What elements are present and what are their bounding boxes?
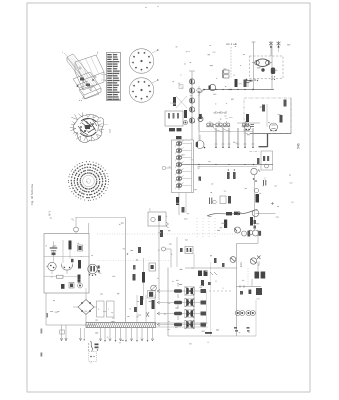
wire xyxy=(266,104,268,127)
wire xyxy=(167,268,169,337)
resistor R22 xyxy=(61,284,65,289)
resistor R17 xyxy=(142,272,145,283)
trimmer C15 xyxy=(179,85,183,89)
wire arc xyxy=(222,127,231,132)
resistor R13 xyxy=(234,212,240,215)
choke L2 xyxy=(256,288,262,301)
tube V13 xyxy=(252,210,259,217)
bus stub A xyxy=(60,325,62,341)
bridge rectifier D1-D4 xyxy=(73,294,97,323)
box detector xyxy=(180,247,193,254)
x-mark xyxy=(257,256,261,260)
label EL84 xyxy=(239,261,243,267)
termination mark xyxy=(205,332,212,334)
capacitor C16 xyxy=(169,128,182,131)
tube V9 xyxy=(46,262,56,274)
IF transformer T4 xyxy=(215,121,223,126)
terminal marks xyxy=(234,327,250,332)
wire curvy xyxy=(207,209,258,216)
small parts mid xyxy=(199,177,202,182)
antenna J2 xyxy=(277,41,281,52)
IF transformer chain T9-T13 xyxy=(189,79,194,123)
input jack xyxy=(158,247,171,268)
resistor R14 xyxy=(250,217,253,226)
transistor Q5 xyxy=(230,257,236,263)
wire xyxy=(185,267,237,269)
wire xyxy=(125,218,127,323)
dial cord dashed wires xyxy=(197,218,215,239)
svg-text:oC 1 oE: oC 1 oE xyxy=(226,42,237,46)
resistor R11 xyxy=(257,158,260,164)
trimmer C3 xyxy=(265,164,269,168)
speaker LS1 xyxy=(235,311,244,316)
caption Fig. 30 xyxy=(30,184,34,205)
wire xyxy=(199,90,203,132)
wire xyxy=(237,243,259,245)
parts table (winding data) xyxy=(107,53,121,101)
wire xyxy=(46,293,96,325)
wire xyxy=(179,193,186,216)
ground stub left A xyxy=(79,328,81,341)
wire xyxy=(205,291,207,325)
shield box (dashed) xyxy=(250,56,284,79)
resistor R18 xyxy=(138,247,141,253)
alignment line (dotted) xyxy=(97,233,252,235)
tube V12 xyxy=(197,88,201,92)
mains switch S2 (dashed box) xyxy=(89,352,97,364)
wire xyxy=(199,131,253,133)
capacitor C5 xyxy=(182,207,185,213)
tube V6 xyxy=(196,135,206,149)
bus extension xyxy=(156,323,208,327)
alignment line 2 (dotted) xyxy=(98,260,170,262)
resistor R7 xyxy=(176,197,179,205)
resistor R24 xyxy=(152,300,155,309)
small parts 2 xyxy=(240,290,251,295)
capacitor C12 xyxy=(69,283,74,289)
component C8 xyxy=(149,263,156,271)
capacitor C11 xyxy=(71,259,81,269)
shield box (dash-dot) xyxy=(244,98,291,134)
ground stub left B xyxy=(84,328,85,340)
wire xyxy=(271,46,273,90)
parts row xyxy=(246,79,259,82)
wire (double hline) xyxy=(181,164,273,167)
fuse marks xyxy=(95,344,99,351)
svg-text:546: 546 xyxy=(297,143,301,149)
capacitor C9 electrolytic xyxy=(50,242,57,257)
coil L1 isometric view xyxy=(70,113,112,143)
resistor R27 xyxy=(176,136,182,139)
switch cluster top xyxy=(198,271,217,287)
resistor R23 xyxy=(140,296,143,305)
wire xyxy=(62,240,64,263)
tube V7 xyxy=(251,168,260,174)
mains squiggle xyxy=(91,341,93,352)
capacitor C19 xyxy=(254,220,257,229)
wires grid-pin stubs xyxy=(215,128,255,148)
tube V8 xyxy=(253,230,259,236)
wire xyxy=(44,255,89,257)
tiny marks xyxy=(127,253,138,260)
tube socket diagram V2 (top view) xyxy=(129,78,159,103)
resistor R25 xyxy=(173,97,176,106)
page number 546 xyxy=(297,143,301,149)
capacitor C7 xyxy=(248,230,261,236)
tuning gang C4 (variable capacitors) xyxy=(172,140,194,193)
IF transformer T2 xyxy=(223,70,229,78)
box oscillator xyxy=(261,151,273,170)
transistor Q2 xyxy=(209,84,216,90)
resistor R21 xyxy=(78,275,81,283)
pickup jack xyxy=(73,217,78,234)
ground stubs xyxy=(99,328,153,341)
wire xyxy=(85,288,87,294)
resistor R10 xyxy=(233,169,236,179)
wire xyxy=(193,254,195,268)
tube V11 xyxy=(88,264,100,276)
wire xyxy=(143,258,145,300)
label OC170 OC171 xyxy=(226,42,237,46)
wire xyxy=(189,71,195,140)
svg-text:view: view xyxy=(110,128,112,133)
transformer T1 isometric view xyxy=(62,52,107,102)
margin mark 2 xyxy=(41,353,43,357)
component marks xyxy=(263,156,269,161)
switch row S1c xyxy=(157,305,206,317)
resistor R5 xyxy=(262,105,265,112)
label N056 xyxy=(258,261,261,266)
capacitor C17 xyxy=(184,121,188,125)
wire xyxy=(54,250,71,262)
enclosure box xyxy=(44,234,89,294)
wire xyxy=(237,285,262,288)
svg-text:C: C xyxy=(149,209,151,212)
wire xyxy=(252,42,256,90)
bus stub B xyxy=(65,325,67,341)
wire xyxy=(198,86,199,140)
tube V14 xyxy=(78,283,83,288)
resistor R9 xyxy=(227,169,230,179)
antenna J1 xyxy=(269,41,273,56)
resistor R16 xyxy=(133,265,136,281)
svg-text:ECL: ECL xyxy=(239,261,243,267)
wire xyxy=(176,237,178,267)
wire xyxy=(88,223,90,234)
resistor R6 xyxy=(284,100,287,107)
resistor R12 xyxy=(226,212,232,215)
wire xyxy=(256,212,276,214)
capacitor C1 xyxy=(247,81,250,88)
component label xyxy=(260,106,264,109)
tube socket diagram V1 (top view) xyxy=(129,49,159,74)
wire xyxy=(193,287,195,328)
wire (dashed AGC) xyxy=(230,47,232,77)
capacitor block C13 xyxy=(97,301,105,317)
resistor R20 xyxy=(51,275,64,278)
wire xyxy=(254,175,256,231)
fuse F1 xyxy=(60,330,65,334)
wire arc2 xyxy=(213,127,222,132)
tube V4 xyxy=(245,125,251,131)
wire stub xyxy=(162,166,171,170)
capacitor C6 xyxy=(242,231,251,237)
transistor Q4 xyxy=(250,258,256,264)
transistor Q3 xyxy=(235,227,241,233)
capacitor C10 xyxy=(78,245,83,251)
capacitor C20 xyxy=(210,198,217,205)
junction xyxy=(201,89,205,93)
resistor R1 xyxy=(235,79,238,87)
wire xyxy=(168,335,256,337)
wire xyxy=(290,98,292,134)
wire (main bus) xyxy=(203,89,274,90)
svg-text:OS: OS xyxy=(257,299,261,301)
IF transformer T5 xyxy=(223,121,231,126)
component marks2 xyxy=(134,307,149,317)
wire xyxy=(251,279,253,287)
resistor R2 xyxy=(244,80,247,88)
tube labels xyxy=(214,111,228,115)
wire xyxy=(137,295,155,323)
svg-text:Fig. 30 Schema: Fig. 30 Schema xyxy=(30,184,34,205)
wire thick L xyxy=(259,134,268,148)
wire xyxy=(236,244,238,337)
wire xyxy=(44,275,77,278)
switch row S1b xyxy=(157,294,206,306)
wire xyxy=(158,220,160,300)
wire xyxy=(257,265,259,271)
wire dash-dot xyxy=(250,151,259,153)
margin mark xyxy=(47,313,49,318)
wire xyxy=(76,217,126,219)
wire crossing xyxy=(170,96,187,108)
rotary switch S1 wiring diagram xyxy=(68,161,109,201)
capacitor C2 xyxy=(251,125,255,127)
wire xyxy=(237,122,260,124)
transistor Q1 xyxy=(271,68,275,81)
margin mark 3 xyxy=(41,329,43,334)
IF transformer T14 xyxy=(198,114,203,122)
resistor R3 xyxy=(246,114,249,122)
resistor R28 xyxy=(254,188,259,202)
capacitor block C14 xyxy=(107,301,115,317)
resistor R26 xyxy=(184,110,187,118)
switch row S1d xyxy=(157,316,206,328)
junction xyxy=(230,89,253,90)
wire (B+ bus) xyxy=(250,133,291,135)
small parts 3 xyxy=(208,258,225,285)
box ferrite xyxy=(148,209,169,229)
box det2 xyxy=(220,196,231,204)
wire xyxy=(257,230,259,244)
resistor R4 xyxy=(280,115,283,123)
wire faint xyxy=(210,262,212,336)
box IF input xyxy=(165,111,183,126)
tube V5 xyxy=(270,123,278,131)
top specks xyxy=(145,6,158,8)
box hatched xyxy=(148,291,156,299)
wire dashed xyxy=(247,268,249,286)
plus mark xyxy=(271,202,274,205)
tiny text marks xyxy=(88,343,89,350)
IF transformer T3 xyxy=(206,121,214,126)
wire xyxy=(255,300,257,336)
tube V10 envelope xyxy=(62,264,73,275)
output transformer T7 xyxy=(255,272,266,279)
value label specks xyxy=(46,44,294,344)
resistor R8 xyxy=(224,220,227,229)
resistor R15 xyxy=(160,230,163,237)
svg-text:40 V: 40 V xyxy=(49,211,52,216)
capacitor C18 xyxy=(264,177,266,186)
label 40W xyxy=(49,211,52,216)
chassis bus bar xyxy=(86,323,156,328)
potentiometer P1 xyxy=(151,285,157,291)
switch row S1a xyxy=(157,283,231,295)
resistor R19 xyxy=(69,241,72,250)
lead dashes xyxy=(224,116,233,119)
IF transformer T6 xyxy=(242,121,250,126)
small parts xyxy=(253,178,257,182)
tube V3 mixer xyxy=(252,59,272,72)
speaker LS2 xyxy=(246,311,255,316)
